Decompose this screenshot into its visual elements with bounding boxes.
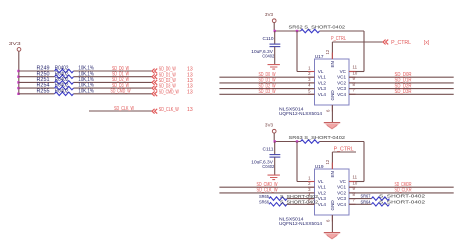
- wire net SD_D1_W to pin 3: [219, 78, 314, 84]
- wire GND pin 6 of U17: [331, 105, 333, 123]
- svg-text:11: 11: [353, 65, 358, 70]
- resistor R251 10K,1% R0402: [37, 77, 95, 84]
- node junction R254 on 3V3 bus: [17, 87, 19, 89]
- wire 3V3 stem U17: [273, 22, 275, 31]
- svg-text:C0402: C0402: [262, 54, 274, 60]
- svg-text:SD_D3_W: SD_D3_W: [259, 89, 276, 95]
- svg-text:12: 12: [325, 159, 330, 164]
- svg-text:VL3: VL3: [318, 196, 327, 201]
- svg-text:VL: VL: [318, 69, 324, 74]
- resistor R254 10K,1% R0402: [37, 83, 95, 90]
- ground (bars) below C111: [268, 175, 280, 180]
- wire EN pin 12 to net P_CTRL: [331, 42, 333, 59]
- off-page connector P_CTRL [x]: [383, 40, 430, 46]
- node junction R249 on 3V3 bus: [17, 70, 19, 72]
- resistor SR62 S_SHORT-0402: [289, 24, 346, 32]
- resistor SR67 S_SHORT-0402 (right, VC3): [349, 194, 426, 201]
- svg-text:SD_CLK_W: SD_CLK_W: [257, 188, 278, 194]
- svg-text:SR67: SR67: [361, 194, 371, 199]
- node VL tap U17: [296, 30, 298, 32]
- node cap tap C111: [274, 140, 276, 142]
- wire net SD_CMDR from pin 10: [349, 182, 454, 188]
- node junction R255 on 3V3 bus: [17, 93, 19, 95]
- svg-text:VL2: VL2: [318, 80, 327, 85]
- wire GND pin 6 of U19: [331, 215, 333, 233]
- svg-text:SD_D3R: SD_D3R: [395, 89, 412, 95]
- wire R250 to off-page net SD_D1_W: [74, 72, 153, 78]
- svg-text:SR65: SR65: [259, 194, 269, 199]
- resistor SR64 S_SHORT-0402 (right, VC4): [349, 199, 426, 206]
- wire net SD_CLK_W to pin 3: [219, 188, 314, 194]
- svg-text:EN: EN: [330, 171, 335, 177]
- svg-text:10: 10: [353, 70, 358, 75]
- svg-text:3V3: 3V3: [265, 12, 274, 17]
- wire VL tap down to pin 1: [296, 31, 298, 72]
- svg-text:UQFN12-NLSX5014: UQFN12-NLSX5014: [279, 221, 322, 227]
- wire 3V3 stem U19: [273, 133, 275, 142]
- off-page connector SD_CMD_W 13: [152, 89, 193, 96]
- svg-text:3V3: 3V3: [265, 123, 274, 128]
- power symbol 3V3 (U17 section): [265, 12, 276, 22]
- off-page connector SD_D1_W 13: [152, 72, 193, 79]
- svg-text:SR66: SR66: [259, 200, 269, 205]
- svg-text:VC4: VC4: [337, 92, 346, 97]
- wire R255 to off-page net SD_CMD_W: [74, 89, 153, 95]
- wire net SD_CLKR from pin 9: [349, 188, 454, 194]
- svg-text:VL1: VL1: [318, 75, 327, 80]
- svg-text:11: 11: [353, 175, 358, 180]
- node junction R250 on 3V3 bus: [17, 76, 19, 78]
- wire 3V3 bus to R251: [19, 81, 55, 83]
- wire net SD_CMD_W to pin 2: [219, 182, 314, 188]
- ground (triangle) below U17: [324, 122, 340, 124]
- power symbol 3V3 (left pull-up bank): [9, 41, 22, 51]
- svg-text:13: 13: [187, 89, 193, 95]
- wire VL tap down to pin 1: [296, 142, 298, 182]
- svg-text:SD_CMD_W: SD_CMD_W: [159, 89, 179, 95]
- IC U19 NLSX5014 level shifter: [308, 163, 356, 222]
- resistor SR66 S_SHORT-0402 (left, VL4): [259, 200, 319, 207]
- svg-text:VC: VC: [340, 179, 347, 184]
- node VL tap U19: [296, 140, 298, 142]
- svg-text:P_CTRL: P_CTRL: [391, 40, 411, 46]
- wire net SD_CLK_W: [89, 106, 152, 112]
- wire net SD_D3_W to pin 5: [219, 89, 314, 95]
- svg-text:VL3: VL3: [318, 86, 327, 91]
- node cap tap C110: [274, 30, 276, 32]
- svg-text:S_SHORT-0402: S_SHORT-0402: [379, 194, 426, 199]
- svg-text:R0402: R0402: [55, 88, 69, 94]
- power symbol 3V3 (U19 section): [265, 123, 276, 133]
- svg-text:C110: C110: [263, 36, 274, 42]
- svg-text:VC2: VC2: [337, 80, 346, 85]
- capacitor C110 10uF,6.3V C0402: [251, 31, 280, 64]
- wire R254 to off-page net SD_D3_W: [74, 83, 153, 89]
- svg-text:13: 13: [187, 107, 193, 113]
- svg-text:R255: R255: [37, 88, 50, 94]
- svg-text:EN: EN: [330, 61, 335, 67]
- wire R251 to off-page net SD_D2_W: [74, 77, 153, 83]
- svg-text:VL2: VL2: [318, 190, 327, 195]
- svg-text:P_CTRL: P_CTRL: [331, 36, 346, 42]
- svg-text:GND: GND: [330, 200, 335, 211]
- wire 3V3 bus to R250: [19, 76, 55, 78]
- svg-text:UQFN12-NLSX5014: UQFN12-NLSX5014: [279, 111, 322, 117]
- wire 3V3 rail U17: [275, 30, 301, 32]
- svg-text:VC2: VC2: [337, 190, 346, 195]
- wire SR63 to VC pin 11: [320, 141, 365, 143]
- svg-text:[x]: [x]: [424, 40, 430, 46]
- off-page connector SD_CLK_W 13: [152, 107, 193, 114]
- wire SR62 to VC pin 11: [320, 30, 365, 32]
- svg-text:S_SHORT-0402: S_SHORT-0402: [379, 199, 426, 204]
- svg-text:C0402: C0402: [262, 164, 274, 170]
- wire 3V3 bus to R255: [19, 93, 55, 95]
- svg-text:P_CTRL: P_CTRL: [334, 147, 354, 153]
- svg-text:C111: C111: [263, 146, 274, 152]
- capacitor C111 10uF,6.3V C0402: [251, 142, 280, 175]
- svg-text:U19: U19: [315, 164, 324, 170]
- svg-text:SR63 S_SHORT-0402: SR63 S_SHORT-0402: [289, 135, 346, 141]
- svg-text:SD_CMD_W: SD_CMD_W: [111, 89, 131, 95]
- svg-text:VC3: VC3: [337, 86, 346, 91]
- svg-text:SD_CLK_W: SD_CLK_W: [114, 106, 134, 112]
- svg-text:GND: GND: [330, 90, 335, 101]
- wire net SD_D3R from pin 7: [349, 89, 454, 95]
- wire net SD_D2R from pin 8: [349, 83, 454, 89]
- svg-text:VC1: VC1: [337, 75, 346, 80]
- svg-text:SR62 S_SHORT-0402: SR62 S_SHORT-0402: [289, 24, 346, 30]
- svg-text:VC1: VC1: [337, 185, 346, 190]
- wire net SD_D0_W to pin 2: [219, 72, 314, 78]
- svg-text:VL4: VL4: [318, 92, 327, 97]
- wire EN pin 12 to net P_CTRL: [331, 152, 333, 169]
- svg-text:10: 10: [353, 180, 358, 185]
- resistor R250 10K,1% R0402: [37, 71, 95, 78]
- node junction R251 on 3V3 bus: [17, 81, 19, 83]
- ground (bars) below C110: [268, 65, 280, 70]
- wire 3V3 bus vertical: [18, 51, 20, 94]
- svg-text:12: 12: [325, 49, 330, 54]
- wire 3V3 bus to R249: [19, 70, 55, 72]
- resistor R249 10K,1% R0402: [37, 66, 95, 73]
- wire net SD_D2_W to pin 4: [219, 83, 314, 89]
- svg-text:SD_CLK_W: SD_CLK_W: [159, 107, 179, 113]
- wire 3V3 bus to R254: [19, 87, 55, 89]
- resistor R255 10K,1% R0402: [37, 88, 95, 95]
- svg-text:3V3: 3V3: [9, 41, 22, 46]
- resistor SR63 S_SHORT-0402: [289, 135, 346, 143]
- svg-text:VC4: VC4: [337, 202, 346, 207]
- svg-text:VL1: VL1: [318, 185, 327, 190]
- wire net SD_D0R from pin 10: [349, 72, 454, 78]
- IC U17 NLSX5014 level shifter: [308, 53, 356, 112]
- svg-text:VC3: VC3: [337, 196, 346, 201]
- resistor SR65 S_SHORT-0402 (left, VL3): [259, 194, 319, 201]
- svg-text:VL: VL: [318, 179, 324, 184]
- svg-text:VL4: VL4: [318, 202, 327, 207]
- wire net SD_D1R from pin 9: [349, 78, 454, 84]
- svg-text:SR64: SR64: [361, 199, 371, 204]
- off-page connector SD_D2_W 13: [152, 78, 193, 85]
- svg-text:U17: U17: [315, 54, 324, 60]
- svg-text:VC: VC: [340, 69, 347, 74]
- ground (triangle) below U19: [324, 232, 340, 234]
- wire R249 to off-page net SD_D0_W: [74, 66, 153, 72]
- wire 3V3 rail U19: [275, 141, 301, 143]
- off-page connector SD_D3_W 13: [152, 84, 193, 91]
- off-page connector SD_D0_W 13: [152, 67, 193, 74]
